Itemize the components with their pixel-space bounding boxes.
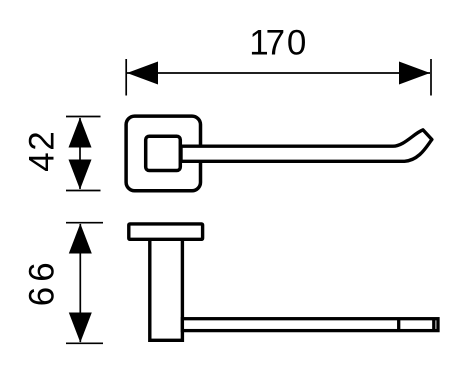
top view: inner mounting block (small square) [146, 136, 181, 170]
top view: holder arm (bent bar, seen from above) [181, 130, 432, 161]
dimension 66 arrowhead up [69, 224, 92, 254]
dimension 170 arrowhead right [399, 62, 430, 85]
dimension 42 extension tick bottom [66, 190, 101, 192]
dimension 66 extension tick top [66, 222, 103, 224]
front view: post body [150, 239, 183, 340]
dimension 66 arrowhead down [69, 313, 92, 343]
svg-text:6: 6 [23, 262, 62, 281]
front view: bar end cap divider [432, 319, 435, 331]
dimension 42 extension tick top [66, 116, 101, 118]
dimension 42 arrowhead down [69, 160, 92, 190]
svg-text:2: 2 [23, 131, 62, 150]
dimension 170 line [127, 72, 430, 74]
svg-text:6: 6 [23, 287, 62, 306]
dimension 42 arrowhead up [69, 118, 92, 148]
svg-text:0: 0 [287, 24, 306, 63]
svg-text:7: 7 [266, 24, 285, 63]
dimension 170 extension tick right [430, 59, 432, 96]
front view: top cap plate [129, 224, 203, 239]
front view: horizontal bar [182, 319, 438, 331]
front view: bar segment divider [397, 319, 400, 331]
dimension 66 extension tick bottom [66, 342, 103, 344]
dimension 42 line [79, 118, 81, 189]
dimension 170 arrowhead left [127, 62, 158, 85]
top view: outer wall plate (rounded square) [126, 116, 200, 191]
dimension 66 line [79, 224, 81, 342]
dimension 170 extension tick left [125, 59, 127, 96]
svg-text:4: 4 [23, 152, 62, 171]
